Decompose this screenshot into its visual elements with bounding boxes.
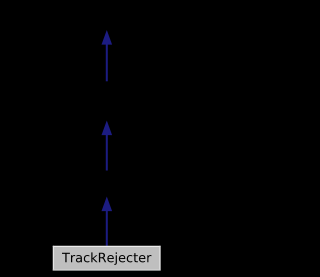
inheritance edge arrow 1 (top) xyxy=(102,30,113,81)
node box fill xyxy=(53,246,160,270)
node TrackRejecter xyxy=(53,246,161,271)
inheritance edge arrow 3 (bottom) xyxy=(102,197,113,246)
inheritance edge arrow 2 (middle) xyxy=(102,121,113,171)
node border xyxy=(53,245,161,247)
